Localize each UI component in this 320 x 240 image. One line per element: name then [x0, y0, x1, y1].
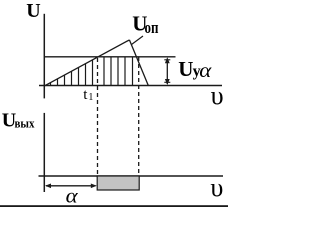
svg-text:U: U — [26, 0, 40, 22]
svg-text:оп: оп — [145, 18, 159, 37]
svg-text:α: α — [66, 186, 79, 208]
svg-text:α: α — [199, 60, 212, 82]
leader line to U_op label — [132, 36, 144, 45]
sawtooth falling edge — [129, 40, 148, 86]
axis horizontal (bottom graph) — [39, 175, 224, 177]
axis U vertical (top graph) — [43, 14, 45, 99]
axis horizontal (top graph) — [39, 85, 222, 87]
arrow alpha (horizontal double-headed) — [45, 184, 97, 189]
arrow U_ya (vertical double-headed) — [164, 57, 170, 85]
control level line U_ya — [44, 56, 175, 58]
svg-text:υ: υ — [211, 81, 224, 110]
output pulse (gray rectangle) — [97, 176, 139, 190]
svg-text:U: U — [178, 57, 193, 81]
sawtooth ramp — [45, 40, 130, 86]
svg-text:вых: вых — [15, 115, 35, 130]
dashed line at t1 — [97, 58, 99, 176]
hatch lines under ramp — [51, 60, 93, 86]
hatch lines under level line — [104, 57, 133, 86]
svg-text:υ: υ — [210, 173, 223, 202]
separator line (figure bottom rule) — [0, 205, 228, 207]
svg-text:1: 1 — [88, 92, 93, 103]
axis U_vyh vertical (bottom graph) — [43, 113, 45, 192]
dashed line at pulse end — [138, 57, 140, 176]
